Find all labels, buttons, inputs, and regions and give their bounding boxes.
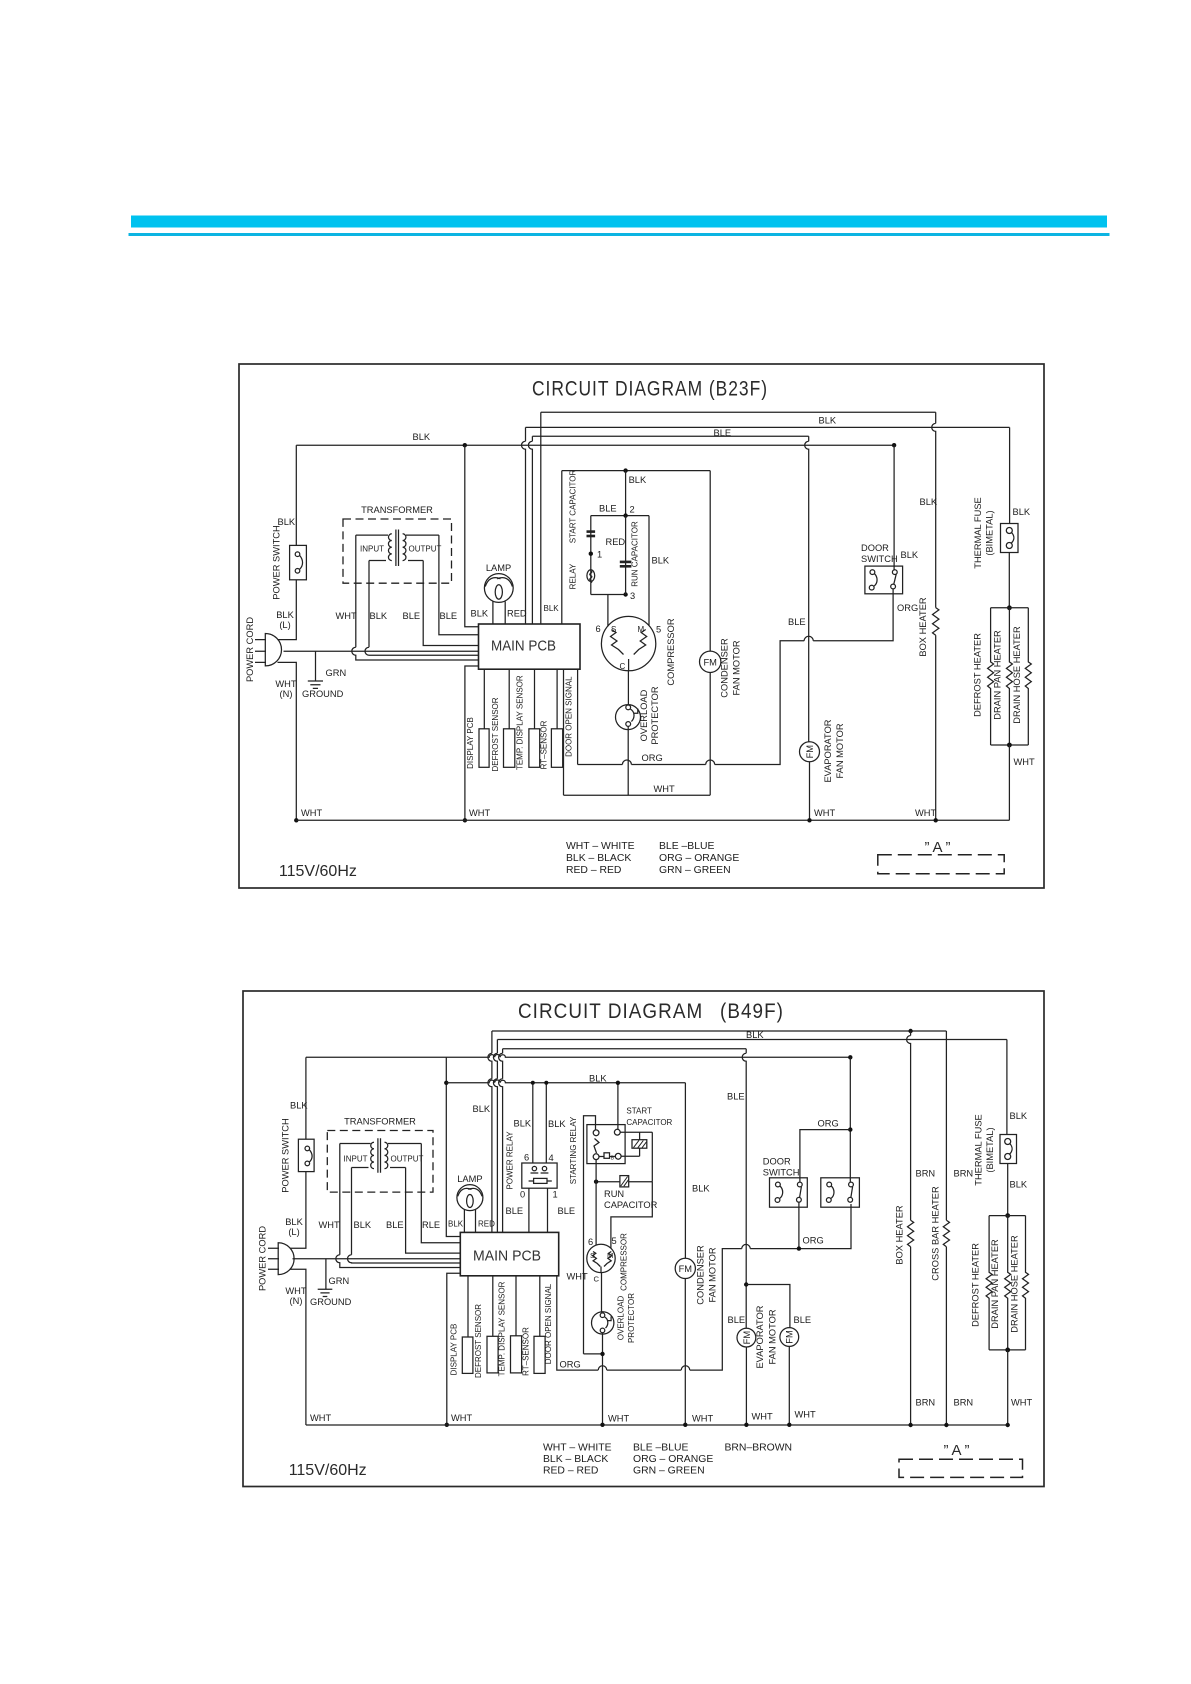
top bus line L2 (1) <box>526 426 1010 428</box>
svg-text:GRN: GRN <box>326 668 347 678</box>
svg-text:BLE: BLE <box>558 1206 576 1216</box>
temp display sensor connector (2) <box>511 1336 522 1373</box>
inner feed line H2 with hops (2) <box>446 1080 685 1083</box>
svg-text:BRN: BRN <box>916 1398 936 1408</box>
wire defrost sensor <box>508 669 510 729</box>
svg-text:BLK: BLK <box>1010 1180 1028 1190</box>
wire transformer WHT lead <box>352 535 479 660</box>
wire BLK(L) cord to power switch <box>278 580 297 640</box>
svg-text:GRN: GRN <box>329 1276 350 1286</box>
top line T2 (2) <box>497 1039 1007 1041</box>
junction dot evaporator split (2) <box>744 1282 748 1286</box>
svg-text:BLE: BLE <box>728 1315 746 1325</box>
defrost heater R2 <box>988 608 994 745</box>
inner box left wire to PCB <box>561 471 563 624</box>
wire door switch 1 return (2) <box>798 1202 800 1248</box>
svg-text:DRAIN HOSE HEATER: DRAIN HOSE HEATER <box>1012 626 1022 724</box>
wire V446 bus to PCB jog (2) <box>446 1057 460 1236</box>
svg-text:TRANSFORMER: TRANSFORMER <box>361 505 433 515</box>
transformer T2 secondary winding <box>385 1142 388 1168</box>
wire evap fan 2 to bus (2) <box>788 1346 790 1424</box>
svg-text:STARTING RELAY: STARTING RELAY <box>569 1116 578 1184</box>
wire power switch up to top bus <box>295 445 297 545</box>
junction dot condenser fan bus (2) <box>683 1423 687 1427</box>
frame box diagram B23F <box>239 364 1044 888</box>
svg-text:DOOR OPEN SIGNAL: DOOR OPEN SIGNAL <box>565 676 574 757</box>
wire inner box right to condenser fan (2) <box>684 1083 686 1259</box>
svg-text:CONDENSER: CONDENSER <box>696 1245 706 1305</box>
svg-text:COMPRESSOR: COMPRESSOR <box>666 618 676 685</box>
wire power switch to main bus (2) <box>305 1057 307 1139</box>
svg-text:COMPRESSOR: COMPRESSOR <box>620 1233 629 1291</box>
svg-text:POWER RELAY: POWER RELAY <box>506 1131 515 1190</box>
compressor M1 <box>601 616 655 670</box>
svg-text:INPUT: INPUT <box>344 1155 368 1164</box>
junction dot relay feed 4 <box>544 1081 548 1085</box>
cross bar heater drop (2) <box>945 1031 947 1220</box>
heater bank bottom bar (1) <box>991 744 1029 746</box>
condenser fan motor FM5 (2) <box>675 1258 695 1278</box>
bottom bus WHT (2) <box>306 1424 1008 1426</box>
top bus line L3 BLE (1) <box>532 435 808 437</box>
svg-text:3: 3 <box>630 591 635 601</box>
svg-text:BLE: BLE <box>788 617 806 627</box>
RT sensor connector <box>551 729 562 768</box>
svg-text:WHT: WHT <box>451 1413 472 1423</box>
wire node3 to compressor S <box>607 595 609 627</box>
start capacitor C1 plates <box>587 530 596 537</box>
wire heater bank to bus (2) <box>1007 1350 1009 1425</box>
wire run branch to compressor M <box>611 1182 652 1249</box>
top line T1 (2) <box>492 1030 947 1032</box>
drain hose heater R4 <box>1025 608 1031 745</box>
svg-text:DRAIN PAN HEATER: DRAIN PAN HEATER <box>990 1239 1000 1329</box>
svg-text:DEFROST SENSOR: DEFROST SENSOR <box>474 1304 483 1378</box>
wire bus to PCB jog <box>465 445 479 627</box>
evaporator fan motor FM2 (1) <box>800 742 820 762</box>
WHT return wire (1) <box>564 794 711 796</box>
svg-text:POWER CORD: POWER CORD <box>258 1226 268 1291</box>
wire cord center to MAIN PCB (2) <box>293 1258 461 1260</box>
lamp LA2 <box>457 1185 483 1211</box>
svg-text:FAN MOTOR: FAN MOTOR <box>835 723 845 778</box>
heater bank top bar (1) <box>991 607 1029 609</box>
svg-text:WHT: WHT <box>814 808 835 818</box>
wire transformer WHT lead (2) <box>336 1144 461 1268</box>
junction dot run capacitor <box>594 1180 598 1184</box>
svg-text:(BIMETAL): (BIMETAL) <box>985 1127 995 1172</box>
svg-text:BRN: BRN <box>954 1169 974 1179</box>
wire thermal fuse to heater bank (2) <box>1007 1164 1009 1216</box>
power cord P2 <box>268 1243 294 1275</box>
compressor M2 <box>587 1244 615 1272</box>
svg-text:RED: RED <box>606 537 626 547</box>
svg-text:BLE: BLE <box>599 504 617 514</box>
wire box heater to bus (2) <box>910 1247 912 1425</box>
svg-text:WHT: WHT <box>795 1410 816 1420</box>
wire box heater to bus <box>935 635 937 820</box>
svg-text:S: S <box>611 625 616 634</box>
wire power relay out 0 <box>528 1188 530 1232</box>
wire door open signal from PCB <box>577 669 579 764</box>
wire V492 T1 to PCB with hops <box>488 1031 492 1232</box>
box heater drop with hop (2) <box>907 1031 911 1220</box>
wire transformer BLE lead (2) <box>406 1168 461 1254</box>
svg-text:WHT: WHT <box>310 1413 331 1423</box>
svg-text:ORG: ORG <box>642 753 663 763</box>
svg-text:BLK: BLK <box>589 1074 607 1084</box>
thermal fuse F2 (2) <box>1000 1135 1017 1164</box>
svg-text:BLK: BLK <box>629 475 647 485</box>
svg-text:BLE: BLE <box>440 611 458 621</box>
defrost heater R7 (2) <box>986 1216 992 1350</box>
svg-text:BLK: BLK <box>448 1220 464 1229</box>
sensor wire display pcb (2) <box>467 1276 469 1337</box>
svg-text:TRANSFORMER: TRANSFORMER <box>344 1117 416 1127</box>
top banner thin cyan rule <box>129 233 1110 236</box>
svg-text:”A”: ”A” <box>944 1442 973 1459</box>
svg-text:6: 6 <box>596 624 601 634</box>
wire PCB riser to starting relay 5 <box>584 1116 603 1354</box>
transformer T1 secondary winding <box>403 534 406 561</box>
transformer T2 primary top bar <box>340 1143 371 1145</box>
wire condenser fan to WHT return <box>709 673 711 796</box>
RT sensor connector (2) <box>534 1336 545 1373</box>
junction dot heater bank top <box>1007 605 1012 610</box>
svg-text:LAMP: LAMP <box>457 1174 482 1184</box>
svg-text:WHT: WHT <box>1011 1398 1032 1408</box>
wire RED run-capacitor branch <box>625 516 627 595</box>
svg-text:BLE: BLE <box>506 1206 524 1216</box>
svg-text:BLK: BLK <box>544 604 560 613</box>
svg-text:FM: FM <box>679 1264 692 1274</box>
power relay feed wire 6 (2) <box>532 1083 534 1163</box>
svg-text:BLK: BLK <box>354 1220 372 1230</box>
svg-text:RLE: RLE <box>422 1220 440 1230</box>
wire start capacitor branch <box>590 516 592 595</box>
run capacitor C2 plates <box>620 561 632 568</box>
svg-text:WHT: WHT <box>301 808 322 818</box>
junction dot overload at bus (2) <box>600 1423 604 1427</box>
wire condenser fan to bus (2) <box>684 1279 686 1425</box>
svg-text:BLK: BLK <box>548 1119 566 1129</box>
svg-text:BLE: BLE <box>403 611 421 621</box>
wire transformer BLK lead <box>365 561 479 656</box>
svg-text:BRN: BRN <box>916 1169 936 1179</box>
svg-text:BLK: BLK <box>901 550 919 560</box>
top bus line L1 BLK (1) <box>541 411 936 413</box>
svg-text:WHT: WHT <box>469 808 490 818</box>
defrost sensor connector (2) <box>487 1336 498 1373</box>
svg-text:M: M <box>607 1251 613 1260</box>
overload protector OL2 <box>592 1312 614 1334</box>
svg-text:ORG: ORG <box>818 1119 839 1129</box>
wire WHT(N) cord down to bottom bus <box>278 662 297 820</box>
main PCB U1 (B23F) <box>479 624 581 669</box>
power relay K2 <box>522 1163 557 1188</box>
svg-text:BLK: BLK <box>1013 507 1031 517</box>
svg-text:FM: FM <box>742 1331 752 1344</box>
svg-text:C: C <box>594 1275 600 1284</box>
transformer T1 primary winding <box>388 534 391 561</box>
svg-text:C: C <box>620 662 626 671</box>
svg-text:115V/60Hz: 115V/60Hz <box>279 863 357 880</box>
wire WHT return from PCB <box>563 669 565 795</box>
evaporator feed BLE wire with hop <box>805 436 809 741</box>
svg-text:MAIN PCB: MAIN PCB <box>473 1248 541 1265</box>
junction dot door return <box>797 1246 801 1250</box>
svg-text:WHT: WHT <box>692 1414 713 1424</box>
drain pan heater R3 <box>1006 608 1012 745</box>
junction dot evap fan 2 bus <box>787 1423 791 1427</box>
junction dot heater bank bottom <box>1007 743 1012 748</box>
ground symbol (1) <box>308 681 323 688</box>
svg-text:BLE: BLE <box>794 1315 812 1325</box>
wire evaporator fan to bus <box>809 762 811 821</box>
sensor wire defrost (2) <box>492 1276 494 1337</box>
junction dot node 3 <box>623 592 627 596</box>
svg-text:OUTPUT: OUTPUT <box>409 545 442 554</box>
wire overload protector to junction (2) <box>602 1333 604 1425</box>
frame box diagram B49F <box>243 991 1044 1487</box>
svg-text:5: 5 <box>612 1236 617 1246</box>
svg-text:LAMP: LAMP <box>486 563 511 573</box>
svg-text:BLK: BLK <box>692 1184 710 1194</box>
drain pan heater R8 (2) <box>1005 1216 1011 1350</box>
door open signal route (1) <box>578 589 894 765</box>
junction dot heater bank top (2) <box>1005 1213 1010 1218</box>
wire WHT(N) cord to bottom bus (2) <box>290 1269 306 1425</box>
junction dot V446 inner feed <box>444 1081 448 1085</box>
junction dot node 1 <box>589 552 593 556</box>
wire node4 to start capacitor tee <box>620 1131 652 1133</box>
wire compressor C to overload protector <box>627 671 629 705</box>
svg-text:ORG: ORG <box>897 603 918 613</box>
wire V503 T3 to PCB with hops <box>499 1049 503 1233</box>
svg-text:WHT: WHT <box>1014 757 1035 767</box>
relay sub-box bottom wire <box>591 594 626 596</box>
svg-text:BLE: BLE <box>727 1092 745 1102</box>
transformer T1 primary top bar <box>356 534 388 536</box>
svg-text:POWER SWITCH: POWER SWITCH <box>272 525 282 599</box>
thermal fuse drop (2) <box>1006 1040 1008 1135</box>
svg-text:BLK: BLK <box>473 1104 491 1114</box>
junction dot heater bank bottom (2) <box>1005 1348 1010 1353</box>
svg-text:FAN MOTOR: FAN MOTOR <box>708 1247 718 1302</box>
wire lamp leg RED <box>504 602 506 625</box>
main bus H1 (2) <box>306 1055 850 1058</box>
svg-text:2: 2 <box>630 505 635 515</box>
wire starting relay 2 to compressor S <box>595 1160 597 1246</box>
transformer T2 core lines <box>378 1138 381 1173</box>
svg-text:DEFROST HEATER: DEFROST HEATER <box>970 1243 980 1327</box>
svg-text:THERMAL FUSE: THERMAL FUSE <box>973 497 983 568</box>
node "A" dashed box (1) <box>878 855 1004 874</box>
wire transformer BLK lead (2) <box>348 1168 461 1264</box>
wire transformer BLE lead 1 <box>423 561 478 646</box>
wire PCB bottom jog to bus (2) <box>447 1273 461 1425</box>
svg-text:CIRCUIT DIAGRAM (B23F): CIRCUIT DIAGRAM (B23F) <box>532 377 768 401</box>
svg-text:WHT: WHT <box>915 808 936 818</box>
svg-text:BLK: BLK <box>514 1119 532 1129</box>
svg-text:ORG: ORG <box>803 1236 824 1246</box>
door switch DS1 (2) <box>770 1178 808 1207</box>
junction dot bus-door switch <box>892 443 896 447</box>
box heater wire from L1 with hop <box>932 412 936 607</box>
svg-text:MAIN PCB: MAIN PCB <box>491 638 556 655</box>
svg-text:FM: FM <box>785 1330 795 1343</box>
top line T3 (2) <box>503 1048 747 1050</box>
junction dot box heater bus (2) <box>908 1423 912 1427</box>
top banner thick cyan bar <box>131 216 1107 228</box>
svg-text:BLK: BLK <box>471 609 489 619</box>
wire transformer BLE lead 2 <box>439 535 479 635</box>
wire V541 from L1 to PCB <box>540 412 542 624</box>
node "A" dashed box (2) <box>899 1459 1023 1477</box>
svg-text:DEFROST HEATER: DEFROST HEATER <box>973 633 983 717</box>
transformer T1 dashed enclosure <box>343 519 452 583</box>
wire thermal fuse to heater bank <box>1008 553 1010 608</box>
display PCB connector (2) <box>462 1337 473 1373</box>
svg-text:DOOR OPEN SIGNAL: DOOR OPEN SIGNAL <box>544 1283 553 1364</box>
svg-text:RED: RED <box>478 1220 495 1229</box>
svg-text:TEMP. DISPLAY SENSOR: TEMP. DISPLAY SENSOR <box>515 675 524 770</box>
inner box right wire to condenser fan <box>709 471 711 652</box>
power switch S1 <box>290 545 307 579</box>
wire temp display sensor <box>534 669 536 729</box>
svg-text:BOX HEATER: BOX HEATER <box>918 597 928 657</box>
wire compressor C to overload protector (2) <box>601 1273 603 1312</box>
junction dot T1 box heater <box>908 1029 912 1033</box>
wire V497 T2 to PCB with hops <box>493 1040 497 1233</box>
svg-text:BLK: BLK <box>278 517 296 527</box>
svg-text:EVAPORATOR: EVAPORATOR <box>823 719 833 782</box>
junction dot starting relay feed <box>616 1081 620 1085</box>
lamp LA1 <box>484 574 513 603</box>
wire power relay out 1 <box>547 1188 549 1232</box>
svg-text:BLK: BLK <box>413 432 431 442</box>
svg-text:POWER SWITCH: POWER SWITCH <box>281 1118 291 1192</box>
wire overload protector to WHT return <box>627 726 629 795</box>
transformer T1 lower bar <box>369 560 423 562</box>
svg-text:DISPLAY PCB: DISPLAY PCB <box>449 1324 458 1376</box>
svg-text:WHT: WHT <box>336 611 357 621</box>
svg-text:OUTPUT: OUTPUT <box>391 1155 424 1164</box>
wire RT sensor <box>556 669 558 729</box>
power switch S2 <box>298 1139 314 1171</box>
junction dot door feed split <box>848 1127 852 1131</box>
svg-text:WHT: WHT <box>608 1414 629 1424</box>
transformer T2 lower bar <box>352 1167 406 1169</box>
wire BLK right branch to compressor M <box>648 516 650 626</box>
svg-text:FAN MOTOR: FAN MOTOR <box>768 1309 778 1364</box>
svg-text:BLK: BLK <box>746 1030 764 1040</box>
junction dot evaporator fan at bus <box>807 818 811 822</box>
svg-text:BRN: BRN <box>954 1398 974 1408</box>
thermal fuse feed wire from L2 <box>1009 427 1011 523</box>
svg-text:RT–SENSOR: RT–SENSOR <box>522 1327 531 1376</box>
svg-text:DEFROST SENSOR: DEFROST SENSOR <box>491 697 500 771</box>
svg-text:BLK: BLK <box>1010 1111 1028 1121</box>
display PCB connector <box>479 729 489 768</box>
wire cord center to MAIN PCB (neutral feed) <box>284 650 479 652</box>
wire PCB to bottom bus jog <box>465 666 479 820</box>
wire BLK(L) cord to power switch (2) <box>290 1172 306 1249</box>
junction dot heater bank bus (2) <box>1006 1423 1010 1427</box>
wire BLK down to node 2 <box>625 471 627 516</box>
wire V532 from L3 to PCB with hop <box>528 436 532 624</box>
transformer T1 core lines <box>396 530 399 567</box>
junction dot box heater at bus <box>934 818 938 822</box>
svg-text:POWER CORD: POWER CORD <box>245 617 255 682</box>
svg-text:115V/60Hz: 115V/60Hz <box>289 1462 367 1479</box>
svg-text:ORG: ORG <box>560 1360 581 1370</box>
svg-text:CIRCUIT DIAGRAM (B49F): CIRCUIT DIAGRAM (B49F) <box>518 999 784 1023</box>
svg-text:OVERLOAD: OVERLOAD <box>639 689 649 741</box>
power cord P1 <box>255 634 282 666</box>
junction dot relay feed 6 <box>531 1081 535 1085</box>
wire V525 from L2 to PCB with hop <box>522 427 526 624</box>
wire GRN drop (2) <box>325 1259 327 1289</box>
svg-text:1: 1 <box>553 1190 558 1200</box>
main bus BLK (1) <box>296 444 894 446</box>
svg-text:WHT: WHT <box>654 784 675 794</box>
sensor wire RT (2) <box>539 1276 541 1337</box>
svg-text:6: 6 <box>524 1153 529 1163</box>
wire lamp leg RED (2) <box>475 1210 477 1233</box>
svg-text:FAN MOTOR: FAN MOTOR <box>732 640 742 695</box>
svg-text:INPUT: INPUT <box>360 545 384 554</box>
transformer T1 secondary top bar <box>406 534 439 536</box>
svg-text:0: 0 <box>520 1190 525 1200</box>
svg-text:BLK: BLK <box>819 416 837 426</box>
wire bus to door switch <box>893 445 895 570</box>
svg-text:BRN–BROWN: BRN–BROWN <box>725 1443 793 1454</box>
svg-text:BOX HEATER: BOX HEATER <box>894 1205 904 1265</box>
start capacitor C3 (2) <box>621 1132 647 1156</box>
power relay feed wire 4 (2) <box>545 1083 547 1163</box>
starting relay K3 <box>587 1125 625 1164</box>
svg-text:RT–SENSOR: RT–SENSOR <box>540 720 549 769</box>
wire door switch 1 feed (2) <box>800 1130 850 1183</box>
transformer T2 primary winding <box>371 1142 374 1168</box>
svg-text:FM: FM <box>703 657 716 667</box>
cross bar heater R6 (2) <box>943 1220 949 1247</box>
wire door feed drop (2) <box>849 1057 851 1182</box>
box heater R1 (1) <box>933 608 939 636</box>
svg-text:BLK: BLK <box>370 611 388 621</box>
wire heater bank to bus <box>1008 745 1010 820</box>
run capacitor C4 (2) <box>620 1176 629 1187</box>
svg-text:RUN CAPACITOR: RUN CAPACITOR <box>631 521 640 587</box>
svg-text:GROUND: GROUND <box>310 1297 352 1307</box>
evaporator feed BLE wire with hop (2) <box>742 1049 746 1329</box>
overload protector OL1 <box>616 705 641 730</box>
svg-text:”A”: ”A” <box>925 839 954 856</box>
junction dot PCB neutral at bus <box>463 818 467 822</box>
svg-text:THERMAL FUSE: THERMAL FUSE <box>974 1114 984 1185</box>
svg-text:CONDENSER: CONDENSER <box>720 638 730 698</box>
svg-text:RED: RED <box>507 609 527 619</box>
svg-text:WHT: WHT <box>319 1220 340 1230</box>
door switch DS2 (2) <box>821 1178 860 1207</box>
wire cross bar heater to bus (2) <box>945 1247 947 1425</box>
svg-text:M: M <box>638 625 645 634</box>
main PCB U2 (B49F) <box>460 1232 558 1275</box>
svg-text:WHT: WHT <box>567 1272 588 1282</box>
door switch DS1 (1) <box>865 566 903 594</box>
inner box top wire (1) <box>562 470 710 472</box>
